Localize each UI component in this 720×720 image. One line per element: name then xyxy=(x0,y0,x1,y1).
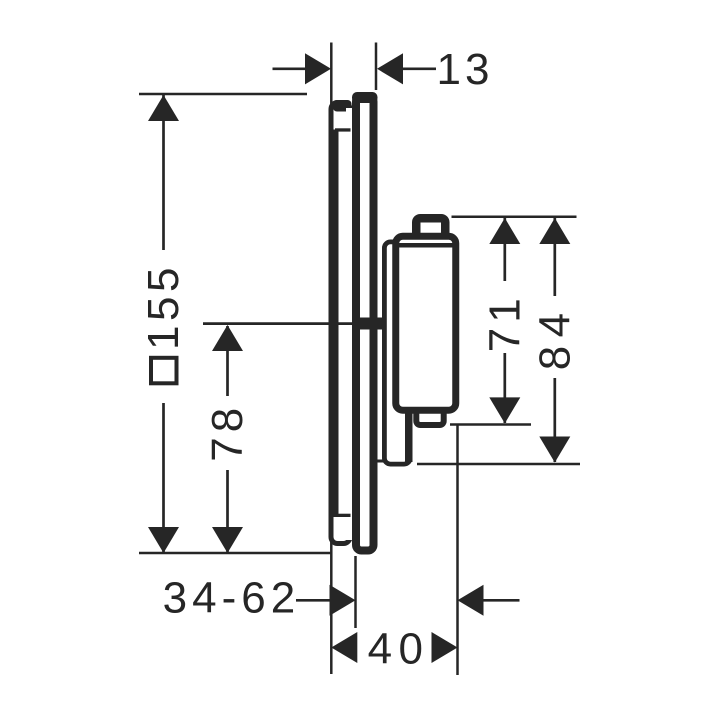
wire: dim 155 line upper xyxy=(162,95,165,250)
node: top select button tab xyxy=(416,218,445,248)
node: dim 84 up arrowhead xyxy=(539,218,570,244)
wire: dim 71 line upper xyxy=(503,218,506,281)
node: rosette tick bottom xyxy=(335,514,351,517)
wire: dim 71/84 top reference line xyxy=(452,216,577,219)
node: dim 71 down arrowhead xyxy=(489,397,520,423)
node: rosette tick top xyxy=(335,128,351,131)
svg-text:34-62: 34-62 xyxy=(163,574,301,623)
wire: dim 84 line lower xyxy=(553,378,556,462)
svg-text:40: 40 xyxy=(368,624,430,673)
node: rosette inner sleeve solid bar xyxy=(329,130,339,518)
svg-text:78: 78 xyxy=(203,403,252,462)
wire: knob cap seam line xyxy=(397,243,454,248)
wire: plate-to-sleeve bottom tick xyxy=(377,460,385,463)
node: valve connector block (over plates) xyxy=(352,318,386,330)
wire: dim 78 top reference line (center line) xyxy=(203,322,356,325)
node: dim 13 left arrowhead xyxy=(305,53,331,84)
wire: dim 78 line upper xyxy=(226,326,229,396)
node: dim 78 up arrowhead xyxy=(212,325,243,351)
wire: dim 155 bottom reference line xyxy=(139,552,333,555)
node: dim 84 down arrowhead xyxy=(539,437,570,463)
wire: dim 71 line lower xyxy=(503,353,506,423)
wire: dim 34-62 leader xyxy=(296,599,330,602)
node: dim 40 right arrowhead xyxy=(432,632,458,663)
node: wall rosette (back plate) outline xyxy=(331,103,350,544)
wire: dim 84 line upper xyxy=(553,218,556,296)
node: dim 34-62 left-pointing arrowhead at outer line xyxy=(458,585,484,616)
node: bottom button tab xyxy=(416,403,443,425)
wire: dim 13 left tail xyxy=(273,67,307,70)
node: sleeve right wall thick part xyxy=(405,413,413,462)
node: dim 78 down arrowhead xyxy=(212,527,243,553)
wire: dim 13 right tail xyxy=(403,67,436,70)
svg-text:84: 84 xyxy=(530,304,579,370)
node: dim 71 up arrowhead xyxy=(489,218,520,244)
svg-text:13: 13 xyxy=(437,45,494,94)
wire: dim 13 extension line left xyxy=(330,43,333,111)
wire: dim 78 line lower xyxy=(226,470,229,553)
wire: dim 155 top reference line xyxy=(139,93,307,96)
svg-text:71: 71 xyxy=(480,293,529,352)
wire: dim 71 bottom reference line xyxy=(450,423,531,426)
node: escutcheon plate (front plate) outline xyxy=(356,96,374,551)
node: rosette top cap xyxy=(333,100,352,112)
node: sleeve (stop ring) behind knob xyxy=(384,242,410,464)
wire: bottom extension line from plate back xyxy=(330,537,333,674)
wire: bottom extension line from plate front xyxy=(354,556,357,628)
node: dim 34-62 right-pointing arrowhead xyxy=(330,585,356,616)
wire: dim 13 extension line right xyxy=(375,43,378,91)
node: dim 13 right arrowhead xyxy=(377,53,403,84)
wire: dim 34-62 right tail xyxy=(484,599,520,602)
node: dim 155 square symbol xyxy=(151,358,177,384)
wire: dim 155 line lower xyxy=(162,403,165,553)
wire: bottom extension line from knob front xyxy=(456,425,459,676)
node: dim 155 up arrowhead xyxy=(148,95,179,121)
node: dim 40 left arrowhead xyxy=(331,632,357,663)
svg-text:155: 155 xyxy=(139,263,188,350)
node: knob handle body xyxy=(396,236,456,410)
node: dim 155 down arrowhead xyxy=(148,527,179,553)
node: rosette slot white patch xyxy=(346,108,353,540)
node: front plate top cap xyxy=(352,92,378,103)
wire: dim 84 bottom reference line xyxy=(417,463,580,466)
